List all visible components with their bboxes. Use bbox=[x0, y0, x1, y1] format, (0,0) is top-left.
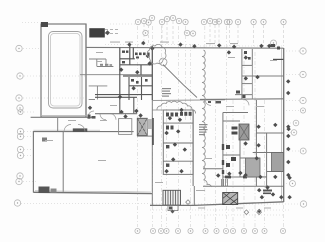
top-right corner dark marks bbox=[271, 44, 281, 50]
hall door jambs bbox=[88, 115, 96, 119]
door arcs on corridor bbox=[64, 111, 116, 132]
left toilet block bbox=[163, 110, 193, 174]
leader S-curve bbox=[163, 65, 197, 98]
small vertical wall bbox=[57, 118, 59, 132]
grid bubbles left column bbox=[14, 45, 23, 206]
pool inner edge bbox=[51, 34, 81, 107]
tag diamonds near corridor bbox=[119, 46, 154, 123]
hatched dim block on wall bbox=[73, 128, 88, 132]
revision cloud vertical chain bbox=[202, 50, 212, 187]
dark jambs on west wall of right wing bbox=[222, 144, 247, 178]
bottom wall right wing bbox=[195, 202, 284, 206]
pool hall right wall bbox=[85, 24, 87, 118]
corridor south wall right wing bbox=[200, 98, 284, 101]
left toilet block top leader wall bbox=[152, 109, 163, 111]
pool hall outer wall bbox=[41, 24, 86, 117]
toilet fixtures left block bbox=[166, 112, 192, 167]
corridor door arcs bbox=[205, 99, 249, 105]
bottom-left outer wall bbox=[33, 192, 152, 193]
right outer wall inner line bbox=[281, 49, 283, 201]
note text block mid-right bbox=[199, 124, 208, 135]
grid bubbles right column bbox=[290, 48, 307, 207]
bottom stair (south) bbox=[163, 190, 181, 205]
small cloudlets bbox=[159, 58, 167, 66]
leader dashes from hatched block bbox=[105, 30, 120, 34]
south wall at stair bbox=[150, 204, 195, 206]
dark fixtures near B bbox=[226, 127, 238, 168]
dark door marks right wing bbox=[236, 51, 284, 98]
scattered tag diamonds bbox=[88, 41, 292, 213]
cluster lower dark walls bbox=[95, 77, 152, 114]
corridor door jamb marks bbox=[208, 101, 221, 103]
open diamonds on bottom dim row bbox=[186, 200, 262, 215]
right outer wall bbox=[283, 48, 285, 202]
left mid horizontal walls bbox=[31, 116, 93, 118]
note text block center bbox=[162, 88, 171, 97]
shaded room C bbox=[246, 158, 261, 177]
top wall of main wing bbox=[86, 46, 284, 49]
pool edge bbox=[49, 32, 83, 109]
corridor wall right of left block bbox=[192, 110, 194, 186]
room beside center stair bbox=[119, 119, 132, 135]
bubble number dots bbox=[17, 17, 304, 231]
diamond beside hatched block bbox=[105, 30, 110, 35]
small stair marks bbox=[222, 179, 228, 186]
right wing lower rooms bbox=[203, 100, 284, 186]
tiny text smudges (room labels, dims) bbox=[45, 42, 277, 209]
pool hall top-left corner block bbox=[41, 22, 48, 27]
central cluster dark walls bbox=[120, 44, 152, 100]
shaded room A bbox=[272, 153, 284, 172]
exterior stair landing below bbox=[168, 206, 178, 214]
inner vertical wall lower-left bbox=[62, 132, 64, 192]
vertical grid dash lines bbox=[138, 26, 284, 227]
grid bubbles top rows bbox=[135, 15, 286, 46]
stair block center bbox=[137, 118, 153, 145]
dark hatched shaft bottom center bbox=[223, 193, 238, 205]
revision cloud bottom blob bbox=[157, 101, 196, 113]
counter marks upper-mid bbox=[100, 64, 112, 66]
cluster fixtures bbox=[122, 51, 150, 84]
corridor top wall right part bbox=[152, 99, 225, 102]
right wing upper rooms bbox=[235, 49, 284, 99]
left outer wall lower bbox=[32, 131, 34, 193]
lower mid corridor wall bbox=[95, 113, 137, 115]
shaded room B (elevator) bbox=[239, 124, 249, 140]
small room below (lockers) bbox=[89, 86, 108, 100]
small fixture left corridor bbox=[42, 138, 47, 142]
bottom-left entry block bbox=[39, 187, 50, 194]
horizontal dotted dimension lines bbox=[21, 23, 300, 216]
long cluster right wall bbox=[151, 46, 153, 100]
revision cloud top blob bbox=[147, 44, 166, 64]
grid bubbles bottom row bbox=[135, 228, 286, 233]
dark text block bottom right bbox=[263, 190, 272, 195]
dark hatched block above plan bbox=[89, 28, 105, 37]
top bubble stems bbox=[144, 21, 284, 46]
upper-mid room walls bbox=[80, 59, 152, 75]
